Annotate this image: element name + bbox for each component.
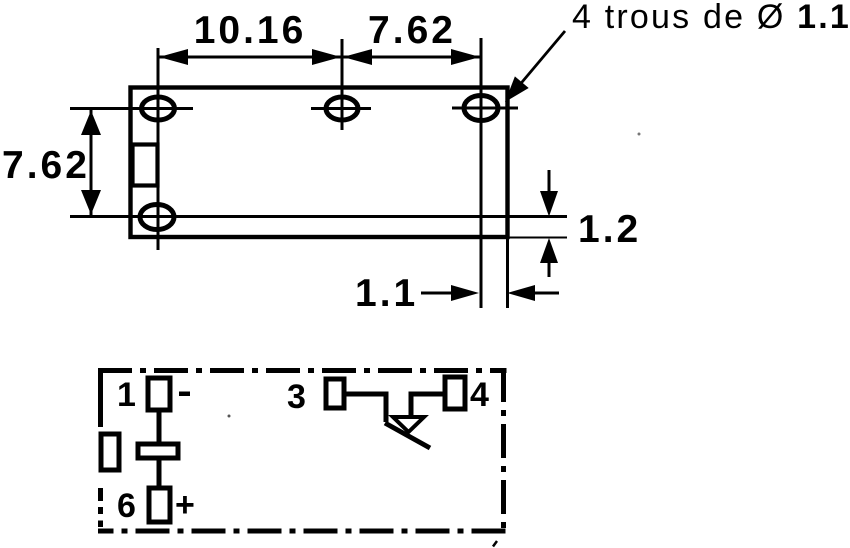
leader arrowhead [505,76,529,102]
1.2 dim upper arrow [548,170,551,193]
centerline tick H2 [311,107,371,110]
1.2 dim lower arrow [548,262,551,277]
hole H2 top-middle [326,97,358,120]
contact blade [385,423,430,448]
arrowhead up [81,111,101,136]
svg-text:6: 6 [117,487,136,525]
scan speck [228,415,231,418]
centerline horizontal through H4 extended both sides [70,215,567,218]
arrowhead down [81,190,101,215]
relay case outline (dash-dot) [98,368,507,534]
arrowhead right at H2 centerline [312,49,341,65]
scan tick below case corner [493,541,497,547]
svg-text:7.62: 7.62 [2,144,90,187]
svg-text:1.2: 1.2 [578,208,641,251]
svg-text:4 trous de Ø 1.1: 4 trous de Ø 1.1 [572,0,850,36]
svg-text:3: 3 [287,378,306,416]
centerline tick H3 [452,107,518,110]
scan speck [638,133,641,136]
coil K1 [138,444,178,458]
svg-text:4: 4 [470,376,489,414]
svg-text:+: + [175,486,195,524]
1.1 dim right arrow [531,292,559,295]
svg-text:1.1: 1.1 [355,272,418,315]
centerline vertical through H1,H4 [157,48,160,250]
svg-text:1: 1 [117,376,136,414]
top dimension line [158,56,481,59]
coil minus polarity mark [179,392,190,397]
left dimension line vertical [90,110,93,215]
side pin terminal on case edge [101,434,119,470]
mounting notch on left edge [133,145,158,186]
svg-text:10.16: 10.16 [194,9,307,52]
wire pin 3 to contact pivot [344,394,386,422]
contact arrowhead (normally open contact) [393,417,424,432]
relay body outline [131,88,508,238]
coil wire lower [157,458,162,490]
hole H3 top-right [464,96,498,121]
arrowhead left at H2 centerline [343,49,372,65]
arrowhead left at H1 centerline [159,49,188,65]
right edge extension below body [506,237,509,308]
pin 3 terminal [326,379,344,408]
centerline vertical through H2 [341,39,344,130]
wire pin 4 to contact [411,394,445,417]
svg-text:7.62: 7.62 [368,9,456,52]
leader line for hole callout [512,31,565,94]
hole H1 top-left [142,97,175,120]
centerline horizontal through H1 extended left [70,107,193,110]
pin 6 terminal [149,488,170,522]
pin 4 terminal [445,377,465,409]
arrowhead right at H3 centerline [451,49,480,65]
coil wire upper [157,410,162,446]
centerline vertical through H3 extended for 1.1 dim [480,38,483,308]
case outline left border custom dash-dot [98,368,103,527]
hole H4 bottom-left [140,205,174,230]
bottom edge extension right for 1.2 dim [508,237,567,239]
pin 1 terminal [148,378,170,410]
1.1 dim left arrow [421,292,455,295]
